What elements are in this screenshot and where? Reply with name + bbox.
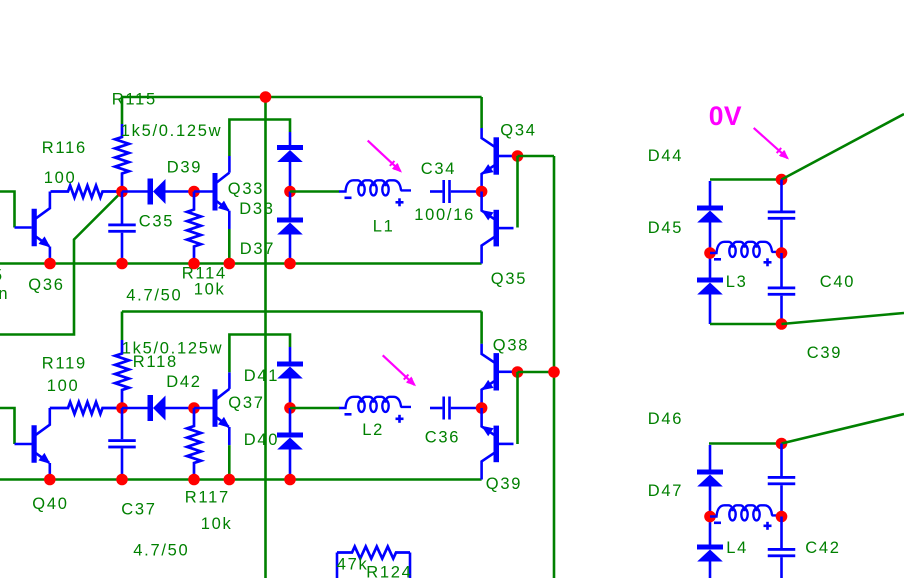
capacitor C42 lower bbox=[768, 517, 796, 578]
label Q39 bbox=[486, 475, 522, 493]
resistor R114 bbox=[187, 192, 201, 264]
label D39 bbox=[167, 159, 202, 177]
svg-text:Q37: Q37 bbox=[228, 394, 264, 412]
capacitor C34 bbox=[430, 180, 482, 203]
magenta pointer ch2 bbox=[383, 355, 419, 389]
inductor L2 bbox=[339, 397, 411, 412]
label R118 bbox=[133, 353, 178, 371]
wire bases link ch2 bbox=[516, 372, 519, 444]
label R116 value bbox=[44, 169, 77, 187]
resistor R118 bbox=[115, 340, 129, 408]
node Q40 emitter rail bbox=[44, 474, 56, 486]
label L4 plus bbox=[764, 522, 772, 530]
svg-text:D33: D33 bbox=[239, 200, 274, 218]
wire Q34 collector feed bbox=[480, 97, 483, 128]
svg-text:C35: C35 bbox=[139, 213, 174, 231]
node diode column mid ch2 bbox=[284, 402, 296, 414]
node top junction bbox=[260, 91, 272, 103]
label D44 bbox=[648, 147, 683, 165]
capacitor C35 bbox=[108, 192, 136, 264]
svg-text:D41: D41 bbox=[244, 367, 279, 385]
label R116 bbox=[42, 139, 87, 157]
svg-text:R116: R116 bbox=[42, 139, 87, 157]
capacitor C39 upper bbox=[768, 180, 796, 254]
node R117 rail bbox=[188, 474, 200, 486]
diode D41 bbox=[277, 347, 303, 408]
svg-text:1k5/0.125w: 1k5/0.125w bbox=[121, 122, 222, 140]
node C35 rail bbox=[116, 258, 128, 270]
node D40 rail bbox=[284, 474, 296, 486]
svg-text:10k: 10k bbox=[201, 515, 233, 533]
node D39 R114 junction bbox=[188, 186, 200, 198]
wire R115 top stub bbox=[121, 97, 124, 124]
svg-text:Q36: Q36 bbox=[28, 276, 64, 294]
label L2 bbox=[362, 421, 384, 439]
svg-text:5: 5 bbox=[0, 267, 4, 285]
label L3 bbox=[726, 273, 748, 291]
label R124 bbox=[366, 564, 412, 578]
resistor R117 bbox=[187, 408, 201, 480]
label D33 bbox=[239, 200, 274, 218]
wire block A bottom diagonal bbox=[782, 313, 904, 324]
svg-text:0V: 0V bbox=[709, 101, 742, 131]
svg-text:Q40: Q40 bbox=[32, 495, 68, 513]
wire Q33 collector to diodes bbox=[229, 120, 290, 173]
svg-text:C36: C36 bbox=[425, 429, 460, 447]
label D46 bbox=[648, 410, 683, 428]
label L3 minus bbox=[714, 258, 721, 261]
wire block B top diagonal bbox=[782, 414, 904, 444]
svg-text:D47: D47 bbox=[648, 482, 683, 500]
capacitor C37 bbox=[108, 408, 136, 480]
label C36 bbox=[425, 429, 460, 447]
svg-text:D46: D46 bbox=[648, 410, 683, 428]
node bus B junction bbox=[548, 366, 560, 378]
resistor R115 bbox=[115, 124, 129, 192]
svg-text:4.7/50: 4.7/50 bbox=[133, 542, 189, 560]
transistor Q37 bbox=[194, 389, 233, 445]
wire block A bottom bbox=[710, 323, 782, 326]
node D37 rail bbox=[284, 258, 296, 270]
wire output link ch2 bbox=[518, 371, 555, 374]
label C39 bbox=[807, 344, 842, 362]
transistor Q35 bbox=[479, 192, 514, 264]
wire L2 feed bbox=[290, 407, 340, 410]
svg-text:C34: C34 bbox=[421, 160, 456, 178]
node R114 rail bbox=[188, 258, 200, 270]
wire block B top bbox=[709, 442, 782, 445]
svg-text:D37: D37 bbox=[240, 240, 275, 258]
label D47 bbox=[648, 482, 683, 500]
label L1 minus bbox=[345, 197, 352, 200]
wire diagonal from node to left bbox=[0, 192, 122, 335]
node D42 R117 junction bbox=[188, 402, 200, 414]
svg-text:C37: C37 bbox=[121, 501, 156, 519]
transistor Q33 bbox=[194, 173, 233, 229]
label C35 bbox=[139, 213, 174, 231]
svg-text:D44: D44 bbox=[648, 147, 683, 165]
transistor Q34 bbox=[479, 128, 514, 192]
node C37 rail bbox=[116, 474, 128, 486]
svg-text:C40: C40 bbox=[820, 273, 855, 291]
svg-text:C42: C42 bbox=[805, 539, 840, 557]
diode D33 bbox=[277, 132, 303, 192]
label C34 bbox=[421, 160, 456, 178]
wire output link ch1 bbox=[518, 155, 555, 158]
svg-text:Q39: Q39 bbox=[486, 475, 522, 493]
label R115 value bbox=[121, 122, 222, 140]
label 0V bbox=[709, 101, 742, 131]
svg-text:47k: 47k bbox=[337, 556, 369, 574]
label R114 value bbox=[194, 281, 226, 299]
svg-text:R119: R119 bbox=[42, 355, 87, 373]
wire ground rail ch1 bbox=[0, 262, 482, 265]
transistor Q36 bbox=[15, 192, 54, 264]
label C40 bbox=[820, 273, 855, 291]
label C34 value bbox=[414, 206, 475, 224]
svg-text:n: n bbox=[0, 285, 9, 303]
wire Q33 emitter to rail bbox=[228, 229, 231, 264]
svg-text:D45: D45 bbox=[648, 219, 683, 237]
diode D42 bbox=[122, 395, 194, 421]
svg-text:L3: L3 bbox=[726, 273, 748, 291]
wire Q36 base feed bbox=[0, 192, 15, 228]
label left fragment n bbox=[0, 285, 9, 303]
label C37 value bbox=[133, 542, 189, 560]
capacitor C36 bbox=[430, 397, 482, 420]
label R117 bbox=[185, 489, 230, 507]
label L2 plus bbox=[396, 415, 404, 423]
transistor Q40 bbox=[15, 408, 54, 480]
svg-text:R118: R118 bbox=[133, 353, 178, 371]
diode D46 bbox=[697, 445, 723, 541]
svg-text:R124: R124 bbox=[366, 564, 412, 578]
svg-text:Q33: Q33 bbox=[228, 180, 264, 198]
svg-text:4.7/50: 4.7/50 bbox=[126, 287, 182, 305]
label Q34 bbox=[500, 122, 536, 140]
node diode column mid ch1 bbox=[284, 186, 296, 198]
label R115 bbox=[112, 91, 157, 109]
diode D44 bbox=[697, 181, 723, 278]
label D45 bbox=[648, 219, 683, 237]
diode D39 bbox=[122, 179, 194, 205]
inductor L1 bbox=[339, 180, 411, 195]
svg-text:D39: D39 bbox=[167, 159, 202, 177]
label L3 plus bbox=[764, 258, 772, 266]
label L4 bbox=[726, 539, 748, 557]
node block A bottom bbox=[776, 318, 788, 330]
transistor Q39 bbox=[479, 408, 514, 480]
svg-text:R117: R117 bbox=[185, 489, 230, 507]
svg-text:100: 100 bbox=[44, 169, 77, 187]
transistor Q38 bbox=[479, 344, 514, 408]
node Q37 emitter rail bbox=[224, 474, 236, 486]
label C35 value bbox=[126, 287, 182, 305]
node Q33 emitter rail bbox=[224, 258, 236, 270]
wire top rail ch1 bbox=[122, 96, 482, 99]
wire long vertical bus B bbox=[553, 156, 556, 578]
inductor L3 bbox=[710, 242, 782, 257]
capacitor C42 upper bbox=[768, 444, 796, 517]
label R117 value bbox=[201, 515, 233, 533]
svg-text:L1: L1 bbox=[373, 218, 395, 236]
label D40 bbox=[244, 431, 279, 449]
label L4 minus bbox=[714, 522, 721, 525]
diode D40 bbox=[277, 408, 303, 480]
svg-text:L4: L4 bbox=[726, 539, 748, 557]
node block A top bbox=[776, 174, 788, 186]
magenta pointer ch1 bbox=[368, 141, 405, 176]
node L4 right bbox=[776, 511, 788, 523]
svg-text:Q38: Q38 bbox=[493, 337, 529, 355]
wire block A top bbox=[710, 178, 782, 181]
wire top rail ch2 bbox=[122, 310, 482, 313]
wire Q37 collector to diodes bbox=[229, 335, 290, 389]
node L3 left bbox=[704, 247, 716, 259]
node C36 output junction bbox=[476, 402, 488, 414]
label R124 value bbox=[337, 556, 369, 574]
wire L1 feed bbox=[290, 190, 340, 193]
svg-text:D40: D40 bbox=[244, 431, 279, 449]
resistor R116 bbox=[51, 186, 123, 198]
node Q38 base junction bbox=[512, 366, 524, 378]
label Q38 bbox=[493, 337, 529, 355]
svg-text:L2: L2 bbox=[362, 421, 384, 439]
label left fragment 5 bbox=[0, 267, 4, 285]
wire long vertical bus A bbox=[264, 97, 267, 578]
svg-text:100/16: 100/16 bbox=[414, 206, 475, 224]
label Q36 bbox=[28, 276, 64, 294]
node Q36 emitter rail bbox=[44, 258, 56, 270]
label Q40 bbox=[32, 495, 68, 513]
inductor L4 bbox=[710, 505, 782, 520]
label R118 value bbox=[122, 340, 223, 358]
wire R118 top stub bbox=[121, 312, 124, 341]
label D37 bbox=[240, 240, 275, 258]
node L4 left bbox=[704, 511, 716, 523]
wire bases link ch1 bbox=[516, 156, 519, 228]
capacitor C40 lower bbox=[768, 253, 796, 324]
label L1 plus bbox=[396, 198, 404, 206]
resistor R119 bbox=[50, 402, 122, 414]
svg-text:10k: 10k bbox=[194, 281, 226, 299]
resistor R124 bbox=[337, 547, 410, 578]
label Q37 bbox=[228, 394, 264, 412]
wire Q38 collector feed bbox=[480, 312, 483, 344]
label L2 minus bbox=[345, 413, 352, 416]
label Q35 bbox=[491, 270, 527, 288]
node Q34 base junction bbox=[512, 150, 524, 162]
diode D47 bbox=[697, 541, 723, 578]
wire block A top diagonal bbox=[782, 114, 904, 180]
diode D37 bbox=[277, 192, 303, 264]
node L3 right bbox=[776, 247, 788, 259]
node C34 output junction bbox=[476, 186, 488, 198]
magenta pointer 0V bbox=[754, 128, 792, 163]
wire Q40 base feed bbox=[0, 408, 15, 444]
label R119 bbox=[42, 355, 87, 373]
wire Q37 emitter to rail bbox=[228, 445, 231, 479]
svg-text:R115: R115 bbox=[112, 91, 157, 109]
node R115 R116 junction bbox=[116, 186, 128, 198]
wire ground rail ch2 bbox=[0, 478, 482, 481]
svg-text:Q34: Q34 bbox=[500, 122, 536, 140]
label C37 bbox=[121, 501, 156, 519]
svg-text:C39: C39 bbox=[807, 344, 842, 362]
label C42 bbox=[805, 539, 840, 557]
label L1 bbox=[373, 218, 395, 236]
label D42 bbox=[166, 373, 201, 391]
label Q33 bbox=[228, 180, 264, 198]
diode D45 bbox=[697, 278, 723, 325]
label R119 value bbox=[47, 377, 80, 395]
svg-text:D42: D42 bbox=[166, 373, 201, 391]
svg-text:Q35: Q35 bbox=[491, 270, 527, 288]
label R114 bbox=[182, 265, 227, 283]
node R118 R119 junction bbox=[116, 402, 128, 414]
label D41 bbox=[244, 367, 279, 385]
svg-text:100: 100 bbox=[47, 377, 80, 395]
node block B top bbox=[776, 438, 788, 450]
